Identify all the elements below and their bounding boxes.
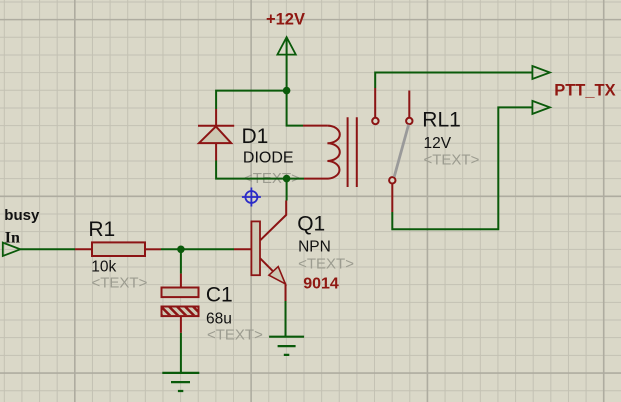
- svg-text:+12V: +12V: [266, 11, 305, 29]
- svg-text:10k: 10k: [91, 259, 116, 276]
- svg-text:<TEXT>: <TEXT>: [298, 256, 354, 273]
- svg-text:<TEXT>: <TEXT>: [207, 327, 263, 344]
- svg-text:Q1: Q1: [297, 213, 325, 236]
- svg-text:<TEXT>: <TEXT>: [92, 274, 148, 291]
- svg-text:In: In: [5, 229, 20, 246]
- svg-text:12V: 12V: [424, 135, 452, 152]
- svg-text:<TEXT>: <TEXT>: [424, 152, 480, 169]
- svg-text:68u: 68u: [206, 311, 232, 328]
- svg-text:D1: D1: [242, 125, 269, 148]
- svg-text:9014: 9014: [303, 275, 339, 292]
- svg-text:NPN: NPN: [298, 239, 331, 256]
- svg-text:PTT_TX: PTT_TX: [554, 81, 615, 99]
- svg-text:C1: C1: [206, 284, 233, 307]
- svg-text:R1: R1: [88, 218, 115, 241]
- svg-text:DIODE: DIODE: [243, 150, 294, 167]
- svg-text:busy: busy: [4, 207, 40, 224]
- svg-text:RL1: RL1: [422, 108, 461, 131]
